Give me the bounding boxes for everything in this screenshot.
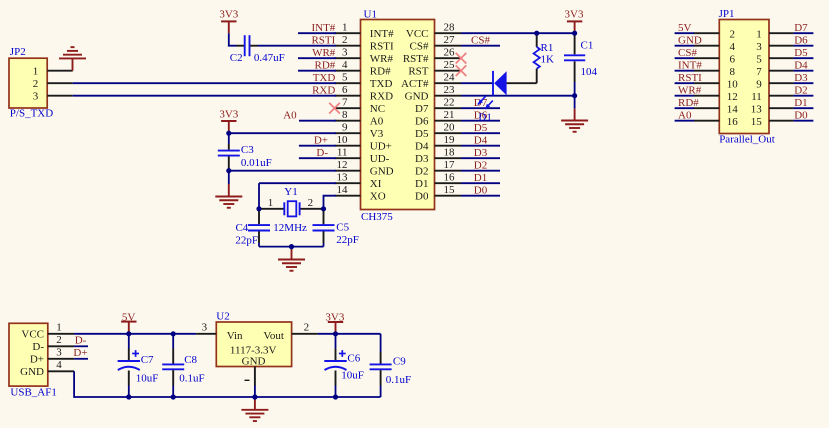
svg-text:5V: 5V [678, 22, 692, 34]
svg-text:USB_AF1: USB_AF1 [10, 386, 56, 398]
svg-text:RXD: RXD [370, 91, 393, 103]
svg-text:D2: D2 [794, 84, 807, 96]
svg-text:C9: C9 [393, 355, 406, 367]
svg-text:1: 1 [56, 322, 62, 334]
svg-text:U2: U2 [216, 311, 229, 323]
svg-text:D-: D- [32, 341, 44, 353]
svg-text:3: 3 [33, 91, 39, 103]
svg-text:RD#: RD# [370, 66, 391, 78]
svg-text:VCC: VCC [406, 28, 429, 40]
svg-text:22: 22 [444, 96, 455, 108]
svg-text:1: 1 [33, 66, 39, 78]
svg-text:D2: D2 [415, 166, 428, 178]
svg-text:26: 26 [444, 46, 456, 58]
svg-text:12: 12 [727, 91, 738, 103]
svg-text:0.01uF: 0.01uF [241, 157, 272, 169]
svg-text:9: 9 [756, 78, 762, 90]
svg-text:0.47uF: 0.47uF [254, 52, 285, 64]
svg-text:1: 1 [342, 21, 348, 33]
svg-text:D6: D6 [794, 34, 808, 46]
svg-text:D6: D6 [415, 116, 429, 128]
svg-text:104: 104 [581, 66, 598, 78]
svg-text:VCC: VCC [21, 329, 44, 341]
svg-text:13: 13 [751, 103, 763, 115]
svg-text:28: 28 [444, 21, 456, 33]
svg-text:D3: D3 [794, 72, 808, 84]
svg-text:22pF: 22pF [336, 234, 359, 246]
svg-text:C4: C4 [235, 222, 248, 234]
svg-text:10: 10 [727, 78, 739, 90]
svg-text:D0: D0 [474, 184, 488, 196]
svg-text:INT#: INT# [370, 28, 394, 40]
svg-text:2: 2 [33, 78, 39, 90]
svg-text:D-: D- [75, 335, 87, 347]
svg-text:2: 2 [304, 322, 310, 334]
svg-text:GND: GND [20, 366, 44, 378]
svg-text:Y1: Y1 [284, 186, 297, 198]
svg-text:13: 13 [337, 171, 349, 183]
svg-text:D5: D5 [415, 128, 429, 140]
svg-text:23: 23 [444, 84, 456, 96]
svg-text:A0: A0 [678, 109, 692, 121]
svg-text:3V3: 3V3 [219, 9, 238, 21]
svg-text:4: 4 [56, 359, 62, 371]
svg-text:GND: GND [678, 34, 702, 46]
svg-text:D0: D0 [794, 109, 808, 121]
svg-text:1: 1 [268, 197, 274, 209]
svg-text:P/S_TXD: P/S_TXD [10, 108, 53, 120]
svg-text:CS#: CS# [471, 34, 490, 46]
svg-text:22pF: 22pF [235, 234, 258, 246]
svg-text:D0: D0 [415, 191, 429, 203]
svg-text:RST: RST [408, 66, 428, 78]
svg-text:3: 3 [342, 46, 348, 58]
svg-text:WR#: WR# [370, 53, 394, 65]
svg-text:JP2: JP2 [10, 46, 26, 58]
svg-text:RD#: RD# [678, 97, 699, 109]
svg-text:XO: XO [370, 191, 386, 203]
svg-text:D1: D1 [415, 178, 428, 190]
svg-text:2: 2 [729, 28, 735, 40]
svg-text:WR#: WR# [312, 47, 336, 59]
svg-text:JP1: JP1 [719, 8, 735, 20]
svg-text:C1: C1 [581, 40, 594, 52]
svg-text:3V3: 3V3 [219, 109, 238, 121]
svg-text:RST#: RST# [403, 53, 429, 65]
svg-text:Vin: Vin [227, 330, 243, 342]
svg-text:14: 14 [727, 103, 739, 115]
svg-text:D4: D4 [794, 59, 808, 71]
svg-text:11: 11 [751, 91, 762, 103]
svg-text:5: 5 [342, 71, 348, 83]
svg-text:Parallel_Out: Parallel_Out [719, 134, 775, 146]
svg-text:C3: C3 [241, 144, 254, 156]
svg-text:D2: D2 [474, 159, 487, 171]
svg-text:WR#: WR# [678, 84, 702, 96]
svg-text:INT#: INT# [311, 22, 335, 34]
svg-text:D5: D5 [794, 47, 808, 59]
svg-text:18: 18 [444, 146, 456, 158]
svg-text:D5: D5 [474, 122, 488, 134]
svg-text:D-: D- [316, 147, 328, 159]
svg-text:16: 16 [444, 171, 456, 183]
svg-text:CS#: CS# [410, 41, 429, 53]
svg-text:3V3: 3V3 [565, 9, 584, 21]
svg-text:RSTI: RSTI [678, 72, 702, 84]
svg-text:C5: C5 [336, 222, 349, 234]
svg-text:11: 11 [337, 146, 348, 158]
svg-text:15: 15 [751, 116, 763, 128]
svg-text:RSTI: RSTI [311, 34, 335, 46]
svg-text:C6: C6 [347, 352, 360, 364]
svg-text:CS#: CS# [678, 47, 697, 59]
svg-text:A0: A0 [283, 109, 297, 121]
svg-text:7: 7 [342, 96, 348, 108]
svg-text:D3: D3 [474, 147, 488, 159]
svg-text:3: 3 [202, 322, 208, 334]
svg-text:12: 12 [337, 159, 348, 171]
svg-text:10uF: 10uF [341, 369, 364, 381]
svg-text:C7: C7 [141, 354, 154, 366]
svg-text:GND: GND [242, 355, 266, 367]
svg-text:D4: D4 [474, 134, 488, 146]
svg-text:4: 4 [729, 41, 735, 53]
svg-text:20: 20 [444, 121, 456, 133]
svg-text:D+: D+ [30, 354, 44, 366]
svg-text:C8: C8 [184, 354, 197, 366]
svg-text:U1: U1 [364, 8, 377, 20]
svg-text:D+: D+ [73, 347, 87, 359]
svg-text:17: 17 [444, 159, 456, 171]
svg-text:1: 1 [756, 28, 762, 40]
svg-text:TXD: TXD [313, 72, 336, 84]
svg-text:D1: D1 [478, 111, 491, 123]
svg-text:D4: D4 [415, 141, 429, 153]
svg-text:D1: D1 [794, 97, 807, 109]
svg-text:D7: D7 [415, 103, 429, 115]
svg-text:25: 25 [444, 59, 456, 71]
svg-text:8: 8 [729, 66, 735, 78]
svg-text:3: 3 [756, 41, 762, 53]
svg-text:XI: XI [370, 178, 382, 190]
svg-text:2: 2 [308, 197, 314, 209]
svg-text:D3: D3 [415, 153, 429, 165]
svg-text:GND: GND [370, 166, 394, 178]
svg-text:16: 16 [727, 116, 739, 128]
svg-text:Vout: Vout [263, 330, 284, 342]
svg-text:RSTI: RSTI [370, 41, 394, 53]
svg-text:CH375: CH375 [361, 211, 393, 223]
svg-text:RXD: RXD [312, 84, 335, 96]
svg-text:D7: D7 [794, 22, 808, 34]
svg-text:24: 24 [444, 71, 456, 83]
svg-text:21: 21 [444, 109, 455, 121]
svg-text:V3: V3 [370, 128, 384, 140]
svg-text:12MHz: 12MHz [273, 222, 307, 234]
svg-text:2: 2 [56, 334, 62, 346]
svg-text:15: 15 [444, 184, 456, 196]
svg-text:A0: A0 [370, 116, 384, 128]
svg-text:5: 5 [756, 53, 762, 65]
svg-text:27: 27 [444, 34, 456, 46]
svg-text:6: 6 [729, 53, 735, 65]
svg-text:1K: 1K [541, 53, 555, 65]
svg-text:D+: D+ [314, 134, 328, 146]
svg-text:7: 7 [756, 66, 762, 78]
svg-text:R1: R1 [541, 42, 554, 54]
svg-text:0.1uF: 0.1uF [386, 374, 411, 386]
svg-text:6: 6 [342, 84, 348, 96]
svg-text:C2: C2 [230, 52, 243, 64]
svg-text:INT#: INT# [678, 59, 702, 71]
svg-text:10uF: 10uF [136, 372, 159, 384]
svg-text:NC: NC [370, 103, 385, 115]
svg-text:UD-: UD- [370, 153, 390, 165]
svg-text:D1: D1 [474, 172, 487, 184]
svg-text:2: 2 [342, 34, 348, 46]
svg-text:3: 3 [56, 347, 62, 359]
svg-text:14: 14 [337, 184, 349, 196]
svg-text:UD+: UD+ [370, 141, 392, 153]
svg-text:19: 19 [444, 134, 456, 146]
svg-text:TXD: TXD [370, 78, 393, 90]
svg-text:ACT#: ACT# [401, 78, 429, 90]
svg-text:GND: GND [405, 91, 429, 103]
svg-text:10: 10 [337, 134, 349, 146]
svg-text:8: 8 [342, 109, 348, 121]
svg-text:9: 9 [342, 121, 348, 133]
svg-text:0.1uF: 0.1uF [179, 372, 204, 384]
svg-text:RD#: RD# [315, 59, 336, 71]
svg-text:4: 4 [342, 59, 348, 71]
